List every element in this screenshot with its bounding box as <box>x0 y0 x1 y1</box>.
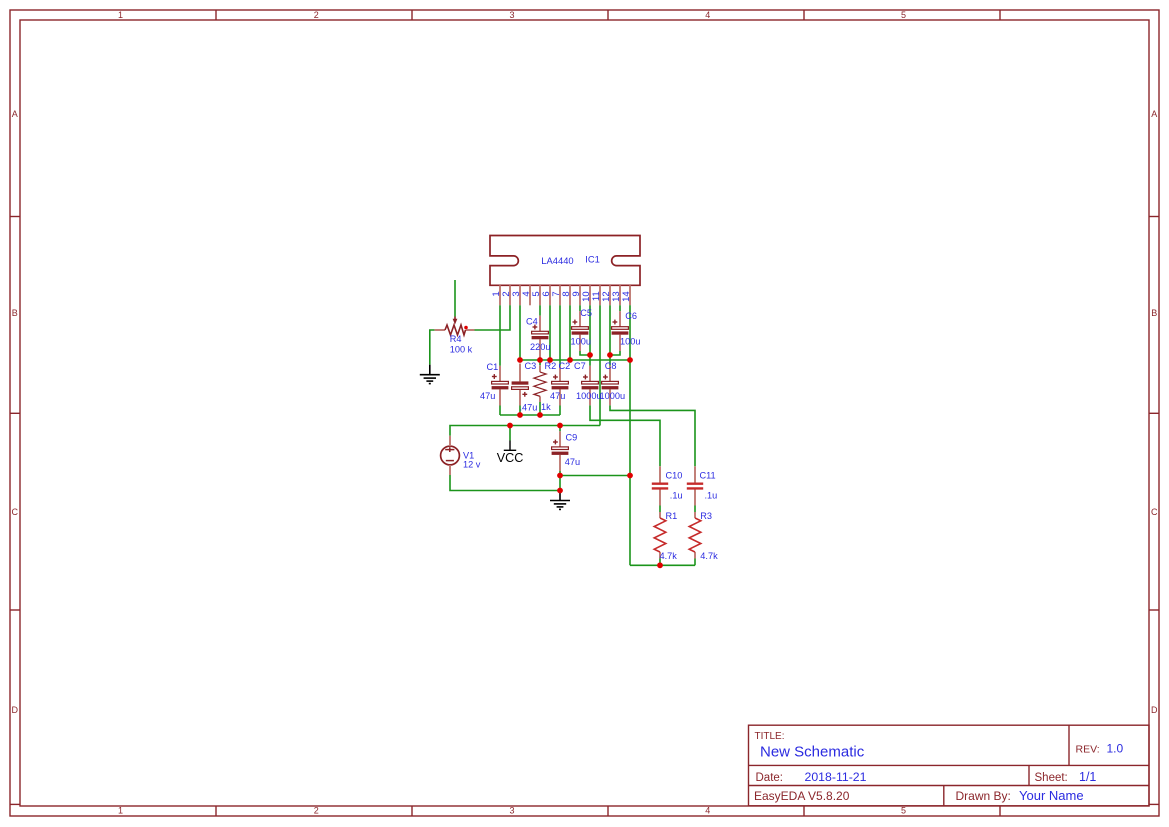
wire C3 bottom <box>519 406 521 416</box>
junction dot (570,360) <box>567 357 573 363</box>
svg-text:C2: C2 <box>559 361 571 371</box>
ground G1 (near R4) <box>420 365 440 384</box>
capacitor C2 <box>552 366 569 406</box>
svg-text:B: B <box>1151 308 1157 318</box>
title block divider REV <box>1068 725 1070 765</box>
capacitor C1 <box>492 366 509 406</box>
svg-text:47u: 47u <box>480 391 495 401</box>
svg-text:C1: C1 <box>487 362 499 372</box>
title block divider DrawnBy <box>943 786 945 806</box>
wire pin3 to bus <box>519 305 521 360</box>
svg-text:C7: C7 <box>574 361 586 371</box>
ruler letters left <box>11 109 18 715</box>
svg-text:2018-11-21: 2018-11-21 <box>805 770 867 784</box>
right ruler ticks <box>1149 216 1159 218</box>
wire pin12 down to C8 <box>609 305 611 366</box>
wire bottom rail <box>630 564 695 566</box>
wire bottom bus <box>500 414 560 416</box>
junction dot (630,360) <box>627 357 633 363</box>
wire R4 wiper vertical <box>454 280 456 317</box>
svg-text:LA4440: LA4440 <box>541 255 573 266</box>
wire C5 elbow to pin10 net <box>580 351 590 355</box>
junction dot (560,425.5) <box>557 423 563 429</box>
svg-text:TITLE:: TITLE: <box>755 731 785 742</box>
wire R3 bottom <box>694 559 696 566</box>
svg-text:100u: 100u <box>620 337 640 347</box>
svg-text:1: 1 <box>118 10 123 20</box>
junction dot (540,360) <box>537 357 543 363</box>
wire pin14 long vertical <box>629 305 631 565</box>
wire C9 to ground <box>559 476 561 491</box>
VCC net flag <box>504 441 516 451</box>
svg-text:C10: C10 <box>666 470 683 480</box>
svg-text:4.7k: 4.7k <box>700 551 718 561</box>
svg-text:100u: 100u <box>571 337 591 347</box>
IC1 pin 14 <box>629 285 631 305</box>
wire C11 to R3 <box>694 506 696 513</box>
title block row line 1 <box>749 764 1150 766</box>
svg-text:C3: C3 <box>525 361 537 371</box>
svg-text:B: B <box>12 308 18 318</box>
svg-text:5: 5 <box>901 806 906 816</box>
wire pin8 to bus <box>569 305 571 360</box>
svg-text:3: 3 <box>509 806 514 816</box>
IC1 pin 11 <box>599 285 601 305</box>
IC1 pin 3 <box>519 285 521 305</box>
wire C10 to R1 <box>659 506 661 513</box>
ruler letters right <box>1151 109 1158 715</box>
top ruler ticks <box>215 10 217 20</box>
wire pin1 to C1 <box>499 305 501 366</box>
junction dot (560,490.5) <box>557 488 563 494</box>
voltage source V1 <box>441 436 460 475</box>
ground G2 (below C9) <box>550 491 570 510</box>
svg-text:Drawn By:: Drawn By: <box>956 789 1011 803</box>
svg-text:.1u: .1u <box>670 491 683 501</box>
wire C9 top stub <box>559 426 561 432</box>
svg-text:VCC: VCC <box>497 451 524 465</box>
title block row line 2 <box>749 785 1150 787</box>
IC1 pin 5 <box>539 285 541 305</box>
junction dot (560,475.5) <box>557 473 563 479</box>
svg-text:New Schematic: New Schematic <box>760 744 865 761</box>
IC1 pin 1 <box>499 285 501 305</box>
svg-text:1: 1 <box>118 806 123 816</box>
svg-text:Date:: Date: <box>756 772 784 784</box>
wire C1 bottom <box>499 406 501 416</box>
wire pin11 down to W1 <box>599 305 601 425</box>
capacitor C7 <box>582 366 599 406</box>
svg-text:C: C <box>1151 507 1158 517</box>
resistor R2 <box>534 360 546 415</box>
svg-text:.47u: .47u <box>520 402 538 412</box>
junction dot (520,360) <box>517 357 523 363</box>
capacitor C5 <box>572 311 589 351</box>
svg-text:IC1: IC1 <box>585 254 600 265</box>
svg-text:5: 5 <box>901 10 906 20</box>
IC1 pin 10 <box>589 285 591 305</box>
junction dot (520,415) <box>517 412 523 418</box>
svg-text:REV:: REV: <box>1076 744 1100 756</box>
junction dot (630,475.5) <box>627 473 633 479</box>
svg-text:47u: 47u <box>565 457 580 467</box>
IC1 pin 4 <box>529 285 531 305</box>
svg-text:R4: R4 <box>450 334 462 344</box>
svg-text:C6: C6 <box>625 311 637 321</box>
svg-text:C8: C8 <box>605 361 617 371</box>
junction dot (510,425.5) <box>507 423 513 429</box>
capacitor C6 <box>612 311 629 351</box>
title block outline <box>749 725 1150 806</box>
IC1 pin 2 <box>509 285 511 305</box>
capacitor C4 <box>532 316 549 358</box>
wire VCC stub <box>509 426 511 441</box>
wire C8 to C11 <box>610 405 695 466</box>
junction dot (590,355) <box>587 352 593 358</box>
wire pin6 to bus <box>549 305 551 360</box>
IC1 pin 13 <box>619 285 621 305</box>
capacitor C3 (flipped) <box>512 364 529 406</box>
wire R4 right to pin2 <box>475 305 511 330</box>
IC1 pin 7 <box>559 285 561 305</box>
capacitor C9 <box>552 431 569 471</box>
svg-text:220u: 220u <box>530 342 550 352</box>
resistor R4 (preset) <box>435 317 475 336</box>
svg-text:1.0: 1.0 <box>1107 742 1124 756</box>
bottom ruler ticks <box>215 806 217 816</box>
svg-text:47u: 47u <box>550 391 565 401</box>
svg-text:4: 4 <box>705 806 710 816</box>
wire W1 rail <box>450 426 600 436</box>
svg-text:C4: C4 <box>526 317 538 327</box>
svg-text:1000u: 1000u <box>576 391 602 401</box>
svg-text:EasyEDA V5.8.20: EasyEDA V5.8.20 <box>754 789 850 803</box>
junction dot (550,360) <box>547 357 553 363</box>
wire main bus <box>520 359 630 361</box>
IC1 pin 12 <box>609 285 611 305</box>
svg-text:R3: R3 <box>700 511 712 521</box>
wires green <box>430 280 695 565</box>
wire C9 bottom stub <box>559 471 561 476</box>
svg-text:4: 4 <box>705 10 710 20</box>
wire pin7 through bus to C2 <box>559 305 561 366</box>
svg-text:Sheet:: Sheet: <box>1035 772 1068 784</box>
wire W2 rail <box>560 475 630 477</box>
capacitor C11 <box>687 466 703 505</box>
IC pin numbers <box>491 291 632 302</box>
junction dot (660,565.3) <box>657 562 663 568</box>
resistor R1 <box>654 512 666 559</box>
svg-text:C: C <box>11 507 18 517</box>
IC1 pin 9 <box>579 285 581 305</box>
wire C7 to C10 <box>590 405 660 466</box>
ruler numbers top <box>118 10 906 20</box>
svg-text:14: 14 <box>621 291 632 302</box>
svg-text:R1: R1 <box>666 511 678 521</box>
svg-text:C9: C9 <box>566 432 578 442</box>
wire pin10 down to C7 <box>589 305 591 366</box>
svg-text:C5: C5 <box>580 308 592 318</box>
svg-text:3: 3 <box>509 10 514 20</box>
svg-text:2: 2 <box>314 10 319 20</box>
svg-text:D: D <box>1151 705 1158 715</box>
wire pin13 to C6 <box>619 305 621 311</box>
svg-text:1000u: 1000u <box>600 391 626 401</box>
wire C2 bottom <box>559 406 561 416</box>
capacitor C10 <box>652 466 668 505</box>
svg-text:C11: C11 <box>700 470 716 480</box>
svg-text:1k: 1k <box>541 402 551 412</box>
wire R4 left to ground <box>430 330 435 365</box>
wire pin9 to C5 <box>579 305 581 311</box>
junction dot (610,355) <box>607 352 613 358</box>
ruler numbers bottom <box>118 806 906 816</box>
left ruler ticks <box>10 216 20 218</box>
svg-text:Your Name: Your Name <box>1019 788 1084 803</box>
svg-text:100 k: 100 k <box>450 344 473 354</box>
resistor R3 <box>689 512 701 559</box>
IC1 pin 6 <box>549 285 551 305</box>
wire V1 minus rail <box>450 475 560 491</box>
svg-text:.1u: .1u <box>705 491 718 501</box>
svg-text:A: A <box>12 109 18 119</box>
wire R1 bottom <box>659 559 661 566</box>
title block divider Sheet <box>1028 765 1030 785</box>
wire C6 elbow to pin12 net <box>610 351 620 355</box>
IC1 pin 8 <box>569 285 571 305</box>
svg-text:D: D <box>11 705 18 715</box>
wire pin5 to C4 <box>539 305 541 315</box>
svg-text:1/1: 1/1 <box>1079 770 1096 784</box>
svg-text:4.7k: 4.7k <box>660 551 678 561</box>
capacitor C8 <box>602 366 619 406</box>
svg-text:12 v: 12 v <box>463 459 481 469</box>
junction dot (540,415) <box>537 412 543 418</box>
op-amp IC U1 body LA4440 <box>490 236 640 286</box>
svg-text:A: A <box>1151 109 1157 119</box>
svg-text:2: 2 <box>314 806 319 816</box>
